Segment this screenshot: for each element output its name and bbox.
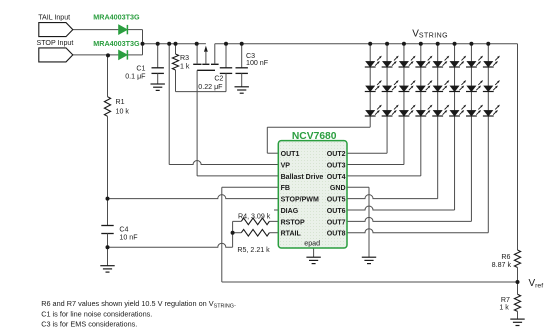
svg-text:VP: VP: [281, 162, 291, 169]
svg-text:R6 and R7 values shown yield 1: R6 and R7 values shown yield 10.5 V regu…: [41, 299, 236, 309]
svg-text:C2: C2: [214, 75, 223, 83]
svg-text:0.1 μF: 0.1 μF: [125, 73, 146, 81]
svg-text:DIAG: DIAG: [281, 208, 299, 215]
svg-text:C1: C1: [136, 64, 145, 72]
svg-text:R4, 3.09 k: R4, 3.09 k: [238, 212, 271, 220]
svg-text:OUT1: OUT1: [281, 151, 300, 158]
svg-text:STOP Input: STOP Input: [37, 39, 74, 47]
svg-text:RTAIL: RTAIL: [281, 231, 302, 238]
svg-text:OUT6: OUT6: [327, 208, 346, 215]
svg-text:OUT7: OUT7: [327, 219, 346, 226]
svg-text:TAIL Input: TAIL Input: [38, 13, 70, 21]
svg-text:RSTOP: RSTOP: [281, 219, 305, 226]
svg-text:8.87 k: 8.87 k: [492, 261, 512, 269]
svg-text:epad: epad: [304, 239, 320, 247]
svg-text:FB: FB: [281, 185, 290, 192]
svg-text:C4: C4: [119, 225, 128, 233]
svg-text:OUT5: OUT5: [327, 197, 346, 204]
svg-text:R5, 2.21 k: R5, 2.21 k: [237, 246, 270, 254]
svg-text:OUT2: OUT2: [327, 151, 346, 158]
svg-text:OUT4: OUT4: [327, 174, 346, 181]
svg-text:C3 is for EMS considerations.: C3 is for EMS considerations.: [41, 319, 137, 328]
svg-text:100 nF: 100 nF: [246, 59, 269, 67]
svg-text:GND: GND: [330, 185, 346, 192]
svg-text:0.22 μF: 0.22 μF: [198, 83, 223, 91]
svg-text:1 k: 1 k: [499, 303, 509, 311]
svg-text:OUT3: OUT3: [327, 162, 346, 169]
svg-text:OUT8: OUT8: [327, 231, 346, 238]
svg-text:Ballast Drive: Ballast Drive: [281, 174, 324, 181]
svg-text:MRA4003T3G: MRA4003T3G: [93, 13, 140, 22]
svg-text:1 k: 1 k: [180, 62, 190, 70]
svg-text:STOP/PWM: STOP/PWM: [281, 197, 319, 204]
svg-text:10 k: 10 k: [116, 108, 130, 116]
svg-text:C1 is for line noise considera: C1 is for line noise considerations.: [41, 309, 152, 318]
svg-text:NCV7680: NCV7680: [292, 131, 337, 142]
svg-text:R3: R3: [180, 54, 189, 62]
svg-text:R1: R1: [116, 98, 125, 106]
svg-text:MRA4003T3G: MRA4003T3G: [93, 39, 140, 48]
svg-text:10 nF: 10 nF: [119, 234, 138, 242]
